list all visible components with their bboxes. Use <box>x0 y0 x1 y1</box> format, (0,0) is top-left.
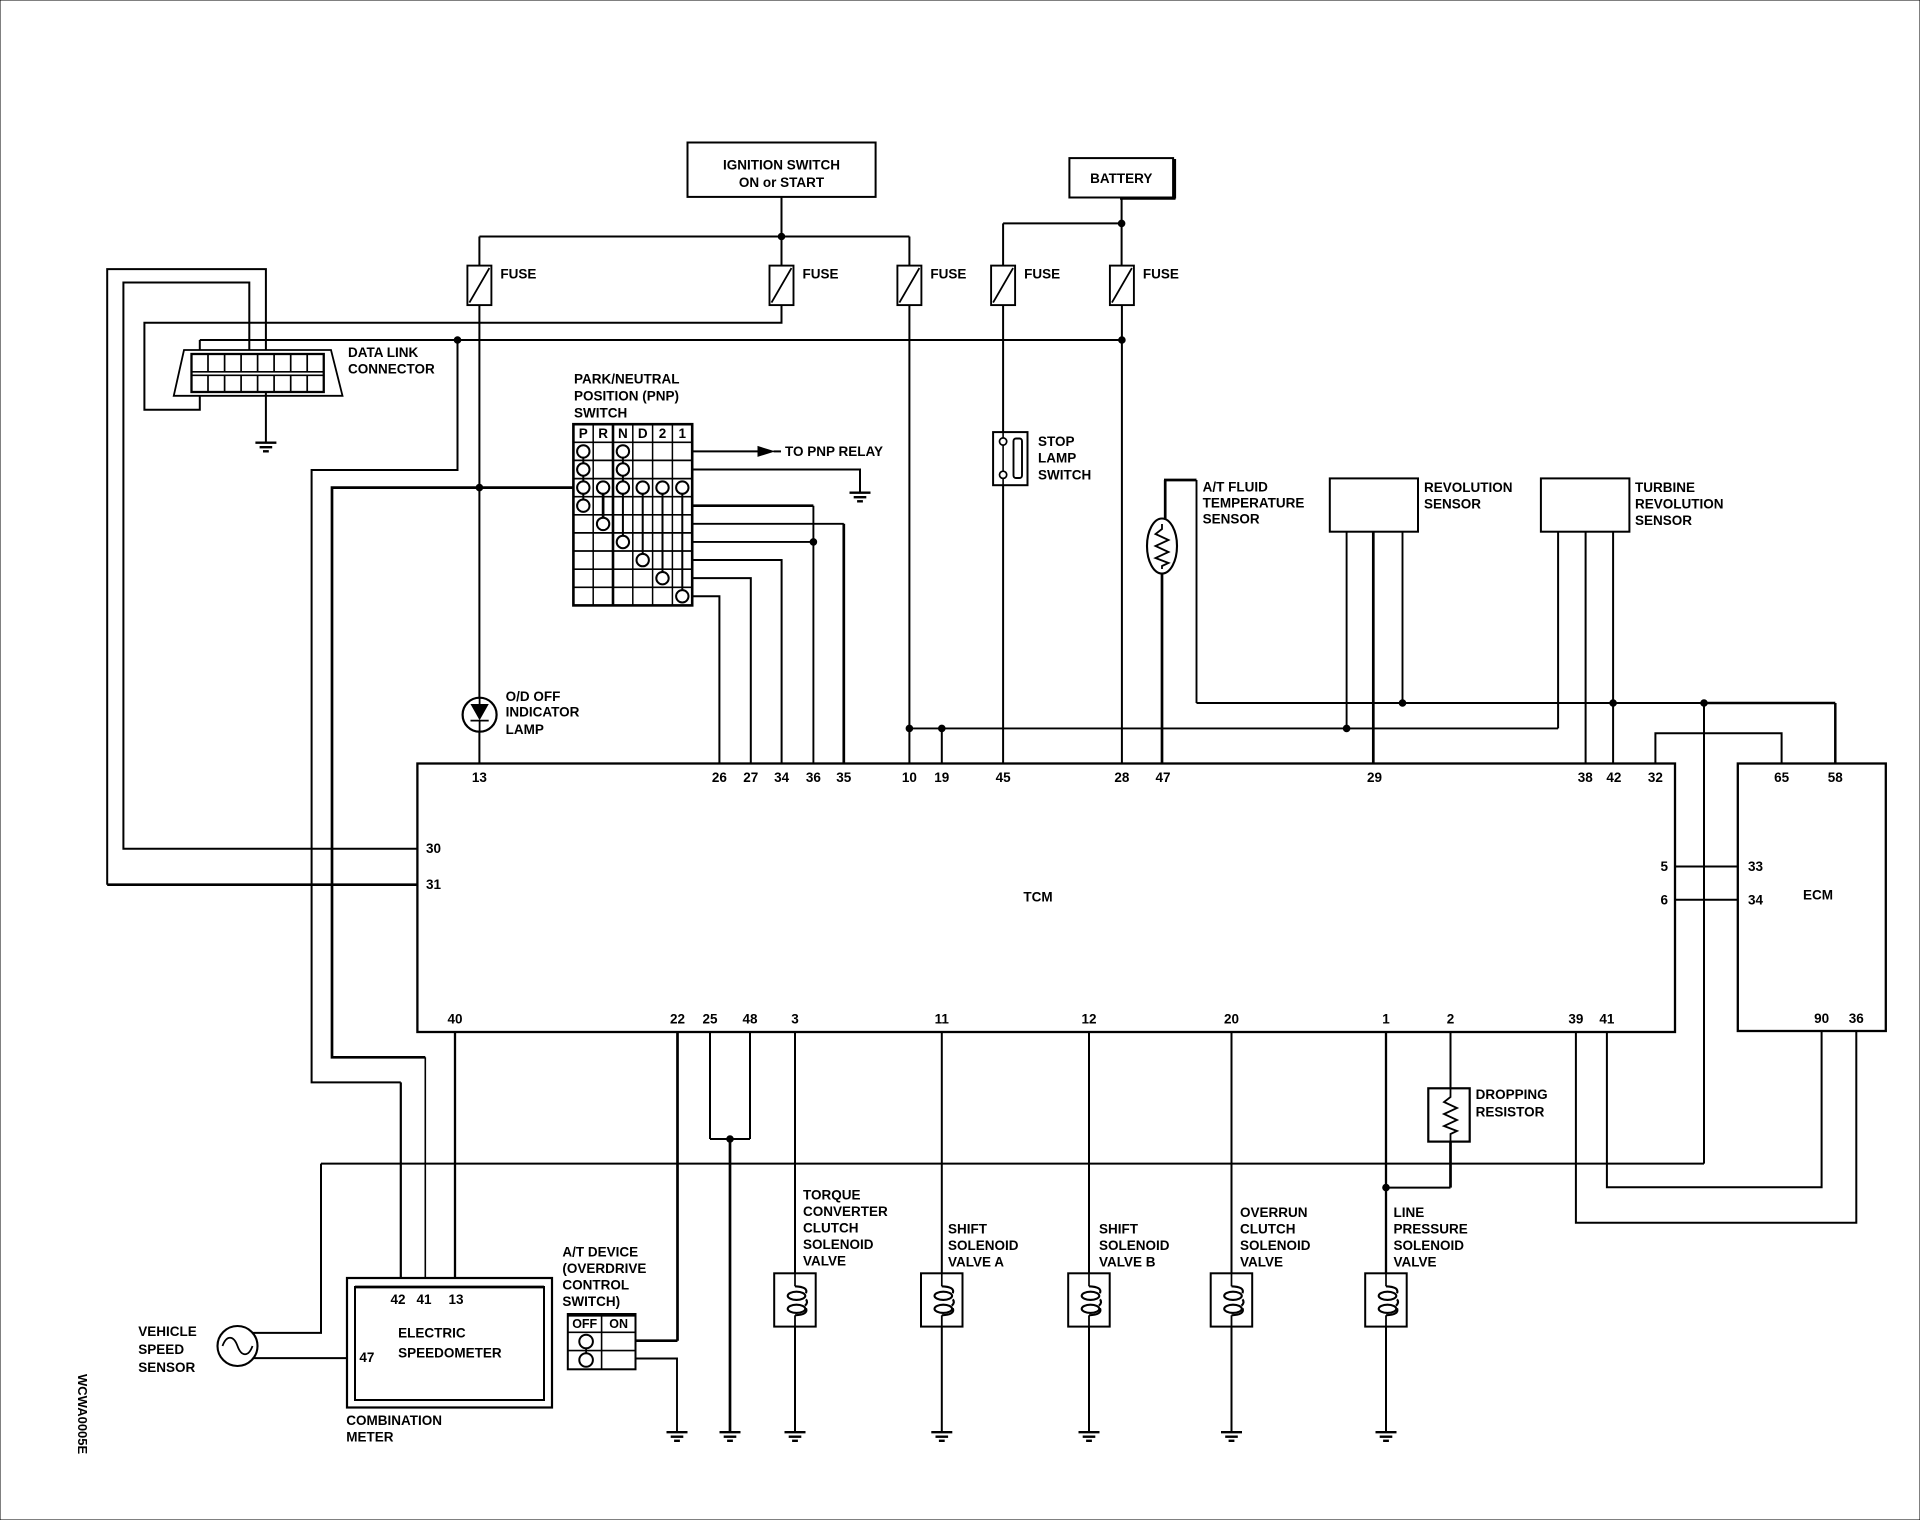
PNP switch contact circles <box>577 445 688 602</box>
wire TCM pin41 to ECM pin90 <box>1607 1031 1822 1187</box>
svg-text:ELECTRIC: ELECTRIC <box>398 1326 466 1341</box>
revolution sensor box <box>1330 478 1418 531</box>
wire branch down to speedometer pin 42 <box>400 1082 402 1287</box>
torque converter clutch solenoid valve <box>774 1273 816 1326</box>
wire PNP row5 (R) <box>692 523 844 525</box>
svg-text:29: 29 <box>1367 770 1382 785</box>
svg-text:35: 35 <box>836 770 852 785</box>
wire PNP row8 (2) to TCM pin 27 <box>692 578 751 763</box>
wire fuse1 to O/D lamp <box>478 305 480 698</box>
svg-text:33: 33 <box>1748 859 1764 874</box>
svg-text:32: 32 <box>1648 770 1663 785</box>
wire bus to fuse3 <box>908 237 910 266</box>
svg-text:VALVE A: VALVE A <box>948 1255 1004 1270</box>
svg-text:TORQUE: TORQUE <box>803 1188 861 1203</box>
svg-text:11: 11 <box>935 1012 950 1027</box>
fuse 4 (battery to stop lamp switch) <box>991 266 1015 306</box>
wire turbine leg3 to TCM pin 42 <box>1612 532 1614 764</box>
svg-text:PRESSURE: PRESSURE <box>1394 1222 1468 1237</box>
ground TCM pins 25/48 <box>720 1432 741 1441</box>
wire A/T device ON row to TCM pin22 <box>636 1339 678 1342</box>
wire fuse4 to stop lamp switch <box>1002 305 1004 432</box>
wire fuse2 to data link connector pin <box>144 305 781 410</box>
wire rev sensor leg2 to TCM pin 29 <box>1372 532 1375 764</box>
svg-text:12: 12 <box>1081 1012 1096 1027</box>
wire temp sensor right leg <box>1196 480 1198 703</box>
svg-text:90: 90 <box>1814 1011 1829 1026</box>
stop lamp switch <box>993 432 1027 485</box>
junction line2 fuse3 <box>906 725 913 732</box>
wire DLC pin1 up <box>199 340 201 354</box>
svg-text:RESISTOR: RESISTOR <box>1476 1105 1545 1120</box>
wire gap vertical to long bus <box>1703 703 1705 1164</box>
ground line pressure solenoid <box>1376 1432 1397 1441</box>
svg-text:34: 34 <box>1748 892 1764 907</box>
wire speed sensor lower to speedometer pin47 <box>254 1357 356 1359</box>
wire DLC pin to TCM pin 30 rail <box>123 283 417 849</box>
svg-text:SENSOR: SENSOR <box>1635 513 1692 528</box>
svg-text:SOLENOID: SOLENOID <box>1394 1238 1465 1253</box>
svg-text:SPEEDOMETER: SPEEDOMETER <box>398 1345 502 1360</box>
arrow tail <box>774 450 782 452</box>
svg-text:13: 13 <box>448 1292 464 1307</box>
svg-text:VALVE: VALVE <box>1240 1255 1283 1270</box>
svg-text:SENSOR: SENSOR <box>1424 497 1481 512</box>
ground overrun solenoid <box>1221 1432 1242 1441</box>
wire PNP row6 (N) <box>692 541 813 543</box>
data link connector <box>174 350 343 396</box>
svg-text:31: 31 <box>426 877 442 892</box>
wire shift solenoid B to ground <box>1088 1327 1090 1431</box>
combination meter / electric speedometer <box>347 1278 552 1408</box>
wire line1 thick right <box>1704 702 1835 705</box>
wire TCM pins 25/48 tie <box>709 1032 711 1139</box>
wire PNP tie column N <box>622 451 624 487</box>
svg-text:COMBINATION: COMBINATION <box>346 1413 442 1428</box>
wire TCM pin40 to speedometer pin13 <box>454 1032 456 1287</box>
svg-text:SENSOR: SENSOR <box>1203 512 1260 527</box>
battery box <box>1069 158 1173 197</box>
wire temp sensor to TCM pin 47 <box>1161 574 1164 764</box>
svg-text:SHIFT: SHIFT <box>948 1222 988 1237</box>
svg-text:1: 1 <box>1382 1012 1390 1027</box>
svg-text:SOLENOID: SOLENOID <box>1240 1238 1311 1253</box>
wire PNP row1 to relay <box>692 450 758 452</box>
svg-text:SWITCH: SWITCH <box>574 406 627 421</box>
svg-text:VALVE: VALVE <box>803 1254 846 1269</box>
svg-text:13: 13 <box>472 770 488 785</box>
svg-text:10: 10 <box>902 770 917 785</box>
junction rev leg1 bus <box>1343 725 1350 732</box>
park/neutral position (PNP) switch grid <box>573 424 692 605</box>
wire TCM pin5 to ECM pin33 <box>1675 866 1738 868</box>
vehicle speed sensor <box>218 1326 258 1366</box>
wire pins 25/48 to ground <box>729 1139 732 1431</box>
wire battery bus <box>1003 222 1122 224</box>
shift solenoid valve B <box>1068 1273 1110 1326</box>
ground PNP relay row <box>850 493 871 502</box>
wire PNP tie column D <box>642 488 644 560</box>
svg-text:CLUTCH: CLUTCH <box>1240 1222 1296 1237</box>
svg-text:LAMP: LAMP <box>1038 451 1076 466</box>
junction battery bus <box>1118 220 1125 227</box>
wire DLC to ground <box>265 392 267 442</box>
wire TCM pin 48 down <box>749 1032 751 1139</box>
wire to TCM pin 36 <box>812 506 814 764</box>
wire bus to fuse1 <box>478 237 480 266</box>
svg-text:FUSE: FUSE <box>500 266 536 281</box>
A/T fluid temperature sensor <box>1147 519 1177 574</box>
svg-text:6: 6 <box>1660 892 1668 907</box>
junction pin1 dropping resistor <box>1383 1184 1390 1191</box>
ECM box <box>1738 764 1886 1032</box>
wire PNP tie column R <box>602 488 605 524</box>
ground shift solenoid A <box>931 1432 952 1441</box>
svg-text:36: 36 <box>806 770 822 785</box>
svg-text:SOLENOID: SOLENOID <box>948 1238 1019 1253</box>
svg-text:SWITCH: SWITCH <box>1038 467 1091 482</box>
svg-text:(OVERDRIVE: (OVERDRIVE <box>562 1261 646 1276</box>
battery box shadow bottom <box>1120 198 1176 200</box>
svg-text:BATTERY: BATTERY <box>1090 171 1152 186</box>
wire long bus to vehicle speed sensor <box>253 1164 321 1333</box>
svg-text:VALVE: VALVE <box>1394 1255 1437 1270</box>
svg-text:36: 36 <box>1849 1011 1865 1026</box>
svg-text:39: 39 <box>1568 1012 1583 1027</box>
svg-text:65: 65 <box>1774 770 1790 785</box>
svg-text:IGNITION SWITCH: IGNITION SWITCH <box>723 158 840 173</box>
wire PNP row7 (D) to TCM pin 34 <box>692 560 781 764</box>
svg-text:OFF: OFF <box>572 1317 597 1331</box>
battery box shadow <box>1173 159 1176 199</box>
svg-text:FUSE: FUSE <box>1024 266 1060 281</box>
svg-text:ECM: ECM <box>1803 888 1833 903</box>
wire shift solenoid A to ground <box>941 1327 943 1431</box>
svg-text:CONTROL: CONTROL <box>562 1278 629 1293</box>
wire TCM pin20 to overrun solenoid <box>1231 1032 1233 1273</box>
wire turbine leg1 <box>1557 532 1559 729</box>
svg-text:DATA LINK: DATA LINK <box>348 345 418 360</box>
wire TCM pin3 to torque converter solenoid <box>794 1032 796 1273</box>
wire TCM pin12 to shift solenoid B <box>1088 1032 1090 1273</box>
svg-text:40: 40 <box>447 1012 462 1027</box>
svg-text:38: 38 <box>1578 770 1594 785</box>
wire ignition bus <box>479 236 909 238</box>
svg-text:SOLENOID: SOLENOID <box>803 1237 874 1252</box>
dropping resistor <box>1428 1088 1469 1141</box>
svg-text:34: 34 <box>774 770 790 785</box>
wire battery down <box>1121 198 1123 266</box>
svg-text:26: 26 <box>712 770 728 785</box>
fuse 1 (ignition to O/D lamp) <box>467 266 491 306</box>
svg-text:TCM: TCM <box>1023 890 1052 905</box>
svg-text:METER: METER <box>346 1430 394 1445</box>
ground data link connector <box>255 443 276 452</box>
ground shift solenoid B <box>1079 1432 1100 1441</box>
svg-text:SOLENOID: SOLENOID <box>1099 1238 1170 1253</box>
svg-text:SHIFT: SHIFT <box>1099 1222 1139 1237</box>
svg-text:47: 47 <box>359 1350 374 1365</box>
wire line1 temp sensor to ECM <box>1197 702 1705 704</box>
svg-text:LAMP: LAMP <box>506 722 544 737</box>
wire pins 25-48 bottom tie <box>710 1138 750 1140</box>
wire turbine leg2 to TCM pin 38 <box>1585 532 1587 764</box>
junction pin36 row6 <box>810 539 817 546</box>
svg-text:R: R <box>598 426 608 441</box>
wire O/D lamp to TCM pin 13 <box>478 732 480 764</box>
svg-text:A/T DEVICE: A/T DEVICE <box>562 1244 638 1259</box>
wire ignition switch to bus <box>781 197 783 266</box>
wire TCM pin6 to ECM pin34 <box>1675 899 1738 901</box>
overrun clutch solenoid valve <box>1211 1273 1253 1326</box>
svg-text:VEHICLE: VEHICLE <box>138 1324 197 1339</box>
svg-text:41: 41 <box>416 1292 432 1307</box>
svg-text:FUSE: FUSE <box>803 266 839 281</box>
wire bus to fuse4 <box>1002 223 1004 265</box>
svg-text:1: 1 <box>679 426 687 441</box>
wire A/T device row3 to ground <box>636 1359 678 1432</box>
svg-text:TO PNP RELAY: TO PNP RELAY <box>785 444 883 459</box>
shift solenoid valve A <box>921 1273 963 1326</box>
wire TCM pin39 to ECM pin36 <box>1576 1031 1856 1223</box>
wire PNP tie column 1 <box>681 488 683 597</box>
wire TCM pin1 to line pressure solenoid <box>1385 1032 1387 1273</box>
svg-text:SWITCH): SWITCH) <box>562 1294 620 1309</box>
svg-text:28: 28 <box>1114 770 1130 785</box>
junction pins 25/48 ground <box>727 1136 734 1143</box>
wire PNP tie column P <box>582 451 584 505</box>
wire TCM pin11 to shift solenoid A <box>941 1032 943 1273</box>
svg-text:58: 58 <box>1828 770 1844 785</box>
wire rev sensor leg3 <box>1402 532 1404 703</box>
svg-text:27: 27 <box>743 770 758 785</box>
junction rev leg3 line <box>1399 700 1406 707</box>
svg-text:5: 5 <box>1660 859 1668 874</box>
fuse 3 (ignition to TCM pin 10/19) <box>897 266 921 306</box>
wire stop lamp switch to TCM pin 45 <box>1002 485 1004 763</box>
svg-text:LINE: LINE <box>1394 1205 1425 1220</box>
svg-text:48: 48 <box>742 1012 758 1027</box>
svg-text:45: 45 <box>996 770 1012 785</box>
O/D OFF indicator lamp <box>463 698 497 732</box>
junction DLC bus fuse5 <box>1119 337 1126 344</box>
ignition switch box <box>688 143 876 197</box>
svg-text:P: P <box>579 426 588 441</box>
wire PNP row4 (P) <box>692 504 813 507</box>
svg-text:2: 2 <box>1447 1012 1455 1027</box>
wire to TCM pin 35 <box>842 524 845 764</box>
wire temp sensor left leg <box>1164 480 1167 520</box>
wire TCM pin32 to ECM pin65 <box>1655 733 1781 763</box>
wire TCC solenoid to ground <box>794 1327 796 1431</box>
svg-text:TURBINE: TURBINE <box>1635 480 1695 495</box>
svg-text:N: N <box>618 426 628 441</box>
svg-text:PARK/NEUTRAL: PARK/NEUTRAL <box>574 372 680 387</box>
svg-text:30: 30 <box>426 841 441 856</box>
svg-text:REVOLUTION: REVOLUTION <box>1635 497 1724 512</box>
svg-text:DROPPING: DROPPING <box>1476 1087 1548 1102</box>
svg-text:42: 42 <box>1606 770 1621 785</box>
junction line2 pin19 <box>939 725 946 732</box>
wire dropping resistor to pin1 net <box>1386 1187 1451 1189</box>
wire line1 to ECM pin 58 <box>1834 703 1837 764</box>
wire data link connector bus <box>200 339 1122 341</box>
junction DLC bus branch <box>454 337 461 344</box>
svg-text:CONVERTER: CONVERTER <box>803 1204 888 1219</box>
svg-text:POSITION (PNP): POSITION (PNP) <box>574 389 679 404</box>
wire TCM pin 31 horizontal <box>107 883 417 886</box>
svg-text:22: 22 <box>670 1012 685 1027</box>
svg-text:A/T FLUID: A/T FLUID <box>1203 479 1268 494</box>
wire DLC pin to TCM pin 31 rail <box>107 269 266 885</box>
svg-text:SENSOR: SENSOR <box>138 1360 195 1375</box>
A/T device (overdrive control switch) <box>568 1314 636 1369</box>
turbine revolution sensor box <box>1541 478 1630 531</box>
fuse 2 (ignition to data link connector) <box>770 266 794 306</box>
svg-text:SPEED: SPEED <box>138 1342 184 1357</box>
svg-text:41: 41 <box>1599 1012 1615 1027</box>
ground A/T device <box>667 1432 688 1441</box>
svg-text:47: 47 <box>1155 770 1170 785</box>
svg-text:CONNECTOR: CONNECTOR <box>348 362 435 377</box>
wire PNP tie column 2 <box>662 488 664 579</box>
wire overrun solenoid to ground <box>1231 1327 1233 1431</box>
svg-text:INDICATOR: INDICATOR <box>506 705 580 720</box>
wire PNP tie column N2 <box>622 488 624 542</box>
svg-text:2: 2 <box>659 426 667 441</box>
junction turbine leg3 line1 <box>1610 700 1617 707</box>
svg-text:STOP: STOP <box>1038 434 1075 449</box>
svg-text:CLUTCH: CLUTCH <box>803 1221 859 1236</box>
svg-text:42: 42 <box>390 1292 405 1307</box>
arrow to PNP relay <box>758 447 774 457</box>
svg-text:20: 20 <box>1224 1012 1239 1027</box>
wire TCM pin22 down <box>676 1032 679 1341</box>
wire rev sensor leg1 <box>1346 532 1348 729</box>
wire PNP row9 (1) to TCM pin 26 <box>692 596 719 763</box>
svg-text:OVERRUN: OVERRUN <box>1240 1205 1308 1220</box>
svg-text:ON: ON <box>609 1317 628 1331</box>
wire PNP row2 to ground <box>692 470 860 492</box>
TCM box <box>417 764 1675 1033</box>
svg-text:FUSE: FUSE <box>930 266 966 281</box>
svg-text:O/D OFF: O/D OFF <box>506 689 561 704</box>
fuse 5 (battery to TCM pin 28) <box>1110 266 1134 306</box>
wire line pressure solenoid to ground <box>1385 1327 1387 1431</box>
line pressure solenoid valve <box>1365 1273 1407 1326</box>
wire DLC branch to speedometer pin 42 <box>312 340 458 1082</box>
wire dropping resistor down <box>1449 1142 1452 1188</box>
svg-text:WCWA0005E: WCWA0005E <box>75 1374 90 1455</box>
wire temp sensor bracket top <box>1164 479 1197 482</box>
svg-text:REVOLUTION: REVOLUTION <box>1424 480 1513 495</box>
ground torque converter solenoid <box>785 1432 806 1441</box>
junction ignition bus <box>778 233 785 240</box>
svg-text:D: D <box>638 426 648 441</box>
svg-text:19: 19 <box>934 770 949 785</box>
wire TCM pin2 to dropping resistor <box>1450 1032 1452 1088</box>
svg-text:25: 25 <box>702 1012 718 1027</box>
wire fuse5 to TCM pin 28 <box>1121 305 1123 763</box>
junction fuse1 PNP power <box>476 484 483 491</box>
wire TCM pin 19 drop <box>941 728 943 763</box>
wire line2 bus <box>909 727 1558 729</box>
svg-text:VALVE B: VALVE B <box>1099 1255 1156 1270</box>
wire PNP power row from fuse1 <box>332 488 573 1058</box>
svg-text:ON or START: ON or START <box>739 175 825 190</box>
wire long bus <box>321 1163 1704 1165</box>
svg-text:3: 3 <box>791 1012 799 1027</box>
junction line1 gap vertical <box>1701 700 1708 707</box>
wire power down to speedometer pin 41 <box>424 1057 426 1287</box>
svg-text:TEMPERATURE: TEMPERATURE <box>1203 496 1305 511</box>
svg-text:FUSE: FUSE <box>1143 266 1179 281</box>
wire fuse3 to TCM pin 10 <box>908 305 910 763</box>
